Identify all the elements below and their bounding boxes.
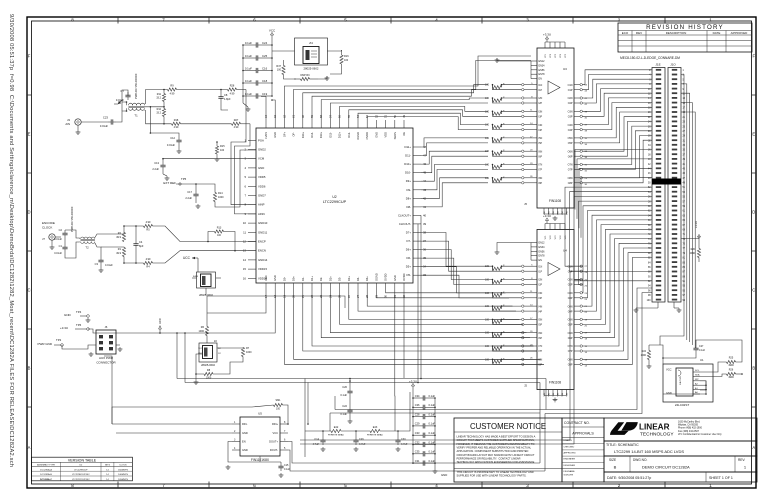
U2 left pins (243, 138, 268, 280)
svg-text:I1N: I1N (539, 84, 543, 87)
svg-text:C29: C29 (415, 422, 420, 426)
svg-text:O8P: O8P (568, 182, 573, 185)
svg-text:GND10: GND10 (258, 221, 268, 225)
svg-text:0.01uF: 0.01uF (100, 124, 108, 128)
svg-text:O3P: O3P (568, 116, 573, 119)
svg-text:O7P: O7P (568, 169, 573, 172)
svg-text:D2-: D2- (319, 277, 323, 281)
svg-text:C15: C15 (284, 464, 289, 467)
svg-text:C4: C4 (139, 240, 143, 244)
resistor R14b (213, 193, 216, 202)
svg-text:APPLICATION. COMPONENT SUBSTIT: APPLICATION. COMPONENT SUBSTITUTION AND … (457, 449, 529, 453)
resistor R27 (232, 122, 241, 125)
svg-text:C20: C20 (342, 385, 347, 389)
termination resistor 100 (493, 139, 502, 142)
svg-text:33.2: 33.2 (156, 112, 161, 115)
termination resistor 100 (493, 112, 502, 115)
wire to buffer inputs (502, 318, 522, 320)
termination resistor 100 (493, 152, 502, 155)
resistor R41 above U5 (274, 403, 283, 406)
wire to buffer inputs (502, 279, 522, 281)
svg-text:I1P: I1P (539, 270, 543, 273)
VCC power arrow for cap bank (271, 35, 273, 38)
buffer U4 body (537, 230, 574, 390)
connector bottom grounds (657, 302, 659, 308)
svg-text:GND11: GND11 (258, 230, 268, 234)
svg-text:EN: EN (539, 259, 543, 262)
svg-text:I7P: I7P (539, 169, 543, 172)
svg-text:C23: C23 (103, 116, 109, 120)
svg-text:11: 11 (243, 230, 246, 234)
edge connector key bar (652, 179, 681, 185)
svg-text:D8+: D8+ (406, 196, 412, 200)
capacitor C26 (355, 437, 357, 440)
version table (31, 457, 132, 481)
svg-text:D4+: D4+ (365, 276, 369, 281)
svg-text:O4P: O4P (568, 129, 573, 132)
termination resistor 100 (493, 99, 502, 102)
capacitor C20 (349, 388, 351, 391)
svg-text:I3P: I3P (539, 116, 543, 119)
svg-text:I2N: I2N (539, 279, 543, 282)
svg-text:DRAWN: DRAWN (564, 439, 573, 442)
aux pwr wiring (88, 329, 116, 333)
svg-text:100: 100 (277, 69, 282, 72)
svg-text:TECHNOLOGY APPLICATIONS ENGINE: TECHNOLOGY APPLICATIONS ENGINEERING FOR … (457, 460, 535, 464)
svg-text:ENCP: ENCP (258, 240, 266, 244)
svg-text:100: 100 (485, 358, 490, 361)
svg-text:GND: GND (374, 132, 378, 138)
svg-text:GND: GND (393, 275, 397, 281)
svg-text:I1P: I1P (539, 89, 543, 92)
svg-text:O4P: O4P (568, 310, 573, 313)
+3.3V power arrow cap bank (412, 386, 414, 389)
svg-text:LVDS: LVDS (264, 132, 268, 139)
border column ticks and numbers (117, 17, 119, 24)
bus from U2 bottom pins to U4 inputs (284, 291, 544, 364)
svg-text:U1: U1 (700, 358, 704, 362)
capacitor C12 (178, 137, 180, 140)
termination resistor 100 (493, 347, 502, 350)
svg-text:I7N: I7N (539, 164, 543, 167)
svg-text:PWB-0R7159-000000: PWB-0R7159-000000 (134, 73, 138, 99)
oscillator Z1 body (201, 274, 212, 287)
U3 input pins (522, 83, 543, 185)
svg-text:R15: R15 (220, 145, 225, 148)
capacitor C13 (162, 162, 164, 165)
svg-text:140MSPS: 140MSPS (118, 474, 128, 476)
svg-text:VDD15: VDD15 (258, 267, 267, 271)
svg-text:BITS: BITS (105, 465, 110, 467)
svg-text:C26: C26 (359, 438, 364, 441)
bypass capacitor bank C24 C25 C16 C18 C19 (242, 38, 273, 103)
svg-text:VERSION TABLE: VERSION TABLE (68, 458, 97, 462)
svg-text:I8N: I8N (539, 177, 543, 180)
svg-text:WP: WP (695, 379, 699, 381)
svg-text:CUSTOMER NOTICE: CUSTOMER NOTICE (470, 422, 546, 431)
svg-text:F: F (28, 54, 31, 59)
svg-text:O5P: O5P (568, 324, 573, 327)
svg-text:R27: R27 (234, 119, 239, 122)
resistor R2 (122, 233, 125, 242)
svg-text:LINEAR TECHNOLOGY HAS MADE A B: LINEAR TECHNOLOGY HAS MADE A BEST EFFORT… (457, 435, 536, 439)
U3 bottom pins (544, 208, 569, 215)
termination resistor 100 (493, 179, 502, 182)
svg-text:2.2uF: 2.2uF (152, 167, 159, 171)
resistor R24 (647, 351, 650, 360)
svg-text:9/30/2008 05:51:37p f=0.98 C: 9/30/2008 05:51:37p f=0.98 C:\Documents … (8, 14, 14, 467)
svg-text:C17: C17 (187, 190, 192, 194)
resistor R18 (172, 122, 181, 125)
svg-text:VCC: VCC (269, 28, 276, 32)
svg-text:C12: C12 (170, 136, 175, 140)
U4 output pins (568, 265, 583, 367)
svg-text:2.2uF: 2.2uF (185, 196, 192, 200)
svg-text:GND: GND (273, 132, 277, 138)
svg-text:R26: R26 (729, 369, 734, 372)
svg-text:SDA: SDA (695, 374, 700, 377)
svg-text:OVDD: OVDD (384, 273, 388, 281)
svg-text:100: 100 (485, 150, 490, 153)
svg-text:100: 100 (485, 124, 490, 127)
svg-text:AINN: AINN (258, 212, 265, 216)
svg-text:I3N: I3N (539, 111, 543, 114)
svg-text:I4P: I4P (539, 310, 543, 313)
svg-text:4.7uF: 4.7uF (401, 443, 408, 446)
capacitor C23 (108, 121, 111, 123)
ground for EN pins of U3 (497, 58, 531, 61)
svg-text:O1N: O1N (568, 265, 573, 268)
ground C17 (195, 199, 197, 203)
svg-text:100: 100 (485, 164, 490, 167)
svg-text:ENCODE: ENCODE (42, 221, 55, 225)
resistor R26 (727, 372, 736, 375)
ground for EN pins of U4 (497, 243, 531, 251)
svg-text:D13-: D13- (328, 132, 332, 138)
svg-text:O3P: O3P (568, 297, 573, 300)
svg-text:50: 50 (393, 114, 397, 118)
svg-text:4.99: 4.99 (146, 258, 151, 261)
oscillator Z2 body (203, 346, 213, 359)
border row ticks and letters (27, 94, 32, 96)
svg-text:D13+: D13+ (319, 132, 323, 139)
svg-text:0.1uF: 0.1uF (429, 403, 436, 407)
svg-text:TP6: TP6 (76, 323, 82, 327)
svg-text:I2P: I2P (539, 284, 543, 287)
svg-text:SCH2299: SCH2299 (564, 475, 574, 477)
svg-text:1000: 1000 (198, 330, 204, 333)
svg-text:0.1uF: 0.1uF (245, 66, 252, 70)
svg-text:C33: C33 (415, 431, 420, 435)
svg-text:24LC02ST: 24LC02ST (675, 403, 690, 407)
svg-text:GND: GND (441, 473, 447, 477)
resistor R1 (122, 248, 125, 257)
svg-text:0.1uF: 0.1uF (245, 79, 252, 83)
capacitor C14 (322, 437, 324, 440)
svg-text:28025-0602: 28025-0602 (201, 363, 215, 367)
long verticals from U2 bottom pins to lower rails (207, 291, 266, 313)
EEPROM wiring (700, 362, 727, 372)
svg-text:100: 100 (220, 149, 225, 152)
svg-text:PWR GND: PWR GND (38, 342, 53, 346)
wire to buffer inputs (502, 97, 522, 99)
svg-text:DOUT+: DOUT+ (269, 440, 278, 444)
svg-text:I5P: I5P (539, 324, 543, 327)
svg-text:A: A (28, 445, 31, 450)
svg-text:MEC8-150-02-L-D-EDGE_CONNARE-D: MEC8-150-02-L-D-EDGE_CONNARE-DM (620, 56, 680, 60)
svg-text:100: 100 (485, 97, 490, 100)
svg-text:GND: GND (242, 448, 248, 452)
revision history table (618, 23, 752, 52)
bus from U4 outputs to edge connector lower pins (565, 187, 652, 367)
svg-text:C32: C32 (415, 440, 420, 444)
T1 input loop wiring (116, 108, 127, 122)
wire to buffer inputs (502, 137, 522, 139)
svg-text:D3+: D3+ (347, 276, 351, 281)
svg-text:U2: U2 (332, 195, 336, 199)
svg-text:GND7: GND7 (258, 194, 266, 198)
ground C3 (100, 265, 102, 268)
buffer U5 body (240, 417, 280, 456)
svg-text:O1P: O1P (568, 89, 573, 92)
EEPROM U1 body (676, 368, 693, 396)
svg-text:C3: C3 (95, 262, 99, 266)
svg-text:D6-: D6- (406, 256, 411, 260)
svg-text:LINEAR: LINEAR (639, 423, 670, 432)
svg-text:0.1uF: 0.1uF (429, 422, 436, 426)
svg-text:O6P: O6P (568, 155, 573, 158)
svg-text:APPROVED: APPROVED (731, 31, 749, 35)
svg-text:VDD6: VDD6 (258, 184, 266, 188)
svg-text:O5N: O5N (568, 137, 573, 140)
svg-text:OE: OE (402, 132, 406, 136)
connector J7 encode (49, 234, 55, 240)
svg-text:D5-: D5- (406, 273, 411, 277)
svg-text:EN: EN (539, 78, 543, 81)
svg-text:CHECKED: CHECKED (564, 446, 575, 448)
svg-text:D1+: D1+ (310, 276, 314, 281)
svg-text:D10-: D10- (405, 171, 411, 175)
svg-text:DOUT-: DOUT- (270, 448, 278, 452)
svg-text:B: B (28, 366, 31, 371)
wire to buffer inputs (502, 124, 522, 126)
capacitor C7 (127, 92, 129, 95)
svg-text:GND: GND (666, 391, 672, 395)
svg-text:O6P: O6P (568, 337, 573, 340)
svg-text:I2P: I2P (539, 102, 543, 105)
svg-text:O2P: O2P (568, 284, 573, 287)
ground aux (90, 352, 92, 354)
U3 output pins (568, 84, 583, 186)
resistor R13 (208, 232, 215, 242)
svg-text:CLKOUT-: CLKOUT- (399, 222, 411, 226)
capacitor C4 (135, 241, 137, 244)
wire to buffer inputs (502, 305, 522, 307)
resistor R7 (241, 348, 244, 357)
resistor R6 (205, 327, 208, 336)
wire to buffer inputs (502, 164, 522, 166)
svg-text:DNP R3: DNP R3 (300, 74, 310, 77)
ground C13 (162, 170, 164, 174)
capacitor C17 (195, 191, 197, 194)
svg-text:RIN-: RIN- (242, 422, 247, 426)
svg-text:B: B (752, 366, 755, 371)
svg-text:I6N: I6N (539, 150, 543, 153)
svg-text:I2N: I2N (539, 97, 543, 100)
termination resistor 100 (493, 267, 502, 270)
Linear Technology logo cell (604, 418, 757, 441)
grounds bead caps (322, 447, 324, 449)
Z2 wiring (217, 347, 243, 350)
svg-text:ASSEMBLY TYPE: ASSEMBLY TYPE (37, 464, 55, 467)
svg-text:I4N: I4N (539, 124, 543, 127)
Z4 wiring (272, 50, 295, 52)
svg-text:OF+: OF+ (282, 132, 286, 138)
svg-text:APPROVED: APPROVED (564, 452, 577, 455)
U3 ground (554, 216, 556, 218)
svg-text:I7N: I7N (539, 345, 543, 348)
wire to buffer inputs (502, 345, 522, 347)
svg-text:D: D (27, 210, 30, 215)
svg-text:EXT REF: EXT REF (163, 181, 176, 185)
U4 +3.3V arrow (546, 221, 548, 224)
svg-text:C31: C31 (415, 459, 420, 463)
wire from U2 pin 63 to VCC rail (272, 100, 275, 120)
ground of J3 (77, 125, 79, 130)
svg-text:24LC025: 24LC025 (680, 375, 682, 385)
svg-text:I1N: I1N (539, 265, 543, 268)
svg-text:EN34: EN34 (539, 246, 546, 249)
svg-text:39: 39 (423, 222, 427, 226)
input network wiring (145, 90, 168, 104)
svg-text:C22: C22 (342, 404, 347, 408)
svg-text:CIRCUIT THAT MEETS CUSTOMER-SU: CIRCUIT THAT MEETS CUSTOMER-SUPPLIED SPE… (457, 438, 535, 442)
svg-text:VDD: VDD (384, 132, 388, 138)
svg-text:4.99: 4.99 (146, 221, 151, 224)
svg-text:+3.3U: +3.3U (543, 32, 551, 36)
wire to buffer inputs (502, 332, 522, 334)
svg-text:1000: 1000 (641, 354, 647, 357)
svg-text:EN78: EN78 (539, 255, 546, 258)
wires from connector low rows to bottom bus (300, 271, 652, 440)
capacitor C22 (349, 407, 351, 410)
svg-text:33.2: 33.2 (156, 97, 161, 100)
svg-text:PERFORMANCE OR RELIABILITY. C: PERFORMANCE OR RELIABILITY. CONTACT LINE… (457, 456, 521, 460)
ferrite bead E42 (331, 429, 341, 432)
svg-text:100: 100 (485, 110, 490, 113)
svg-text:C2: C2 (59, 228, 63, 232)
svg-text:E: E (28, 132, 31, 137)
svg-text:100: 100 (485, 305, 490, 308)
svg-text:VCC: VCC (273, 431, 279, 435)
bus from U2 top pins to U3 inputs (284, 56, 531, 130)
resistor R5 (144, 224, 153, 227)
svg-text:100: 100 (485, 332, 490, 335)
svg-text:O4N: O4N (568, 124, 573, 127)
svg-text:16: 16 (243, 276, 247, 280)
svg-text:0.01uF: 0.01uF (54, 252, 62, 255)
svg-text:D7+: D7+ (406, 231, 412, 235)
svg-text:CLKOUT+: CLKOUT+ (398, 213, 411, 217)
svg-text:CIRCUIT BOARD LAYOUT MAY SIGNI: CIRCUIT BOARD LAYOUT MAY SIGNIFICANTLY A… (457, 453, 535, 457)
bypass bank C34 C36 C28 C29 C33 C32 C35 C31 (412, 389, 436, 469)
ground for cap bank (243, 103, 248, 107)
svg-text:100: 100 (485, 345, 490, 348)
svg-text:AUX PWR: AUX PWR (99, 356, 114, 360)
ADC U2 body (256, 128, 413, 283)
wire to buffer inputs (502, 292, 522, 294)
svg-text:SUPPLIED FOR USE WITH LINEAR T: SUPPLIED FOR USE WITH LINEAR TECHNOLOGY … (457, 474, 527, 478)
svg-text:O2P: O2P (568, 102, 573, 105)
oscillator Z4 outer box (295, 38, 328, 65)
termination resistor 100 (493, 307, 502, 310)
svg-text:+3.3U: +3.3U (694, 221, 698, 228)
svg-text:SHDN: SHDN (193, 276, 199, 278)
U4 ground (554, 398, 556, 400)
svg-text:100: 100 (485, 279, 490, 282)
svg-text:EN56: EN56 (539, 250, 546, 253)
svg-text:0.1uF: 0.1uF (245, 41, 252, 45)
svg-text:LTC2299CUP: LTC2299CUP (74, 469, 88, 471)
svg-text:1000: 1000 (218, 196, 224, 199)
svg-text:FIN1101K8X: FIN1101K8X (251, 458, 270, 462)
svg-text:D9-: D9- (406, 188, 411, 192)
svg-text:GND: GND (242, 431, 248, 435)
wire to buffer inputs (502, 177, 522, 179)
svg-text:0.01uF: 0.01uF (105, 264, 113, 267)
svg-text:EN56: EN56 (539, 69, 546, 72)
svg-text:FIN1108: FIN1108 (549, 381, 561, 385)
svg-text:I6N: I6N (539, 332, 543, 335)
svg-text:I4N: I4N (539, 305, 543, 308)
svg-text:O8N: O8N (568, 177, 573, 180)
wires connector remaining upper pins (575, 150, 652, 238)
svg-text:R24: R24 (642, 350, 647, 353)
arrow at C7 (118, 100, 122, 104)
U3 comparator triangle (548, 81, 560, 94)
capacitor C2 (64, 230, 66, 233)
U4 bottom pins (544, 390, 569, 397)
edge connector right strip J1O (668, 68, 686, 303)
svg-text:GND: GND (64, 313, 72, 317)
svg-text:49.9: 49.9 (116, 252, 121, 255)
svg-text:C19: C19 (262, 92, 268, 96)
wire to buffer inputs (502, 265, 522, 267)
svg-text:CONNECTOR: CONNECTOR (96, 361, 116, 365)
svg-text:APPROVALS: APPROVALS (572, 432, 594, 436)
svg-text:100: 100 (485, 177, 490, 180)
svg-text:D7-: D7- (406, 239, 411, 243)
ground of J7 (51, 240, 53, 245)
capacitor C30 (397, 437, 399, 440)
svg-text:0.01uF: 0.01uF (167, 143, 175, 147)
svg-text:4.99: 4.99 (230, 93, 235, 96)
svg-text:C: C (752, 288, 755, 293)
U5 outputs to lower bus (288, 442, 540, 464)
svg-text:I7P: I7P (539, 350, 543, 353)
svg-text:+3.3U: +3.3U (543, 214, 551, 218)
U2 right pins (398, 145, 427, 277)
svg-text:EN12: EN12 (539, 60, 546, 63)
svg-text:UCC: UCC (183, 256, 191, 260)
svg-text:CONTRACT NO.: CONTRACT NO. (564, 421, 590, 425)
svg-text:1000: 1000 (246, 351, 252, 354)
svg-text:D1-: D1- (301, 277, 305, 281)
svg-text:E: E (752, 132, 755, 137)
svg-text:C34: C34 (415, 394, 420, 398)
svg-text:C7: C7 (120, 89, 124, 93)
svg-text:TP5: TP5 (181, 177, 187, 181)
